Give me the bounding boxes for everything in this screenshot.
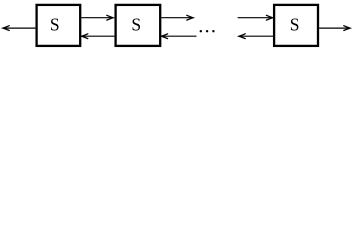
- svg-text:S: S: [50, 15, 60, 35]
- svg-text:S: S: [131, 15, 141, 35]
- svg-text:S: S: [290, 15, 300, 35]
